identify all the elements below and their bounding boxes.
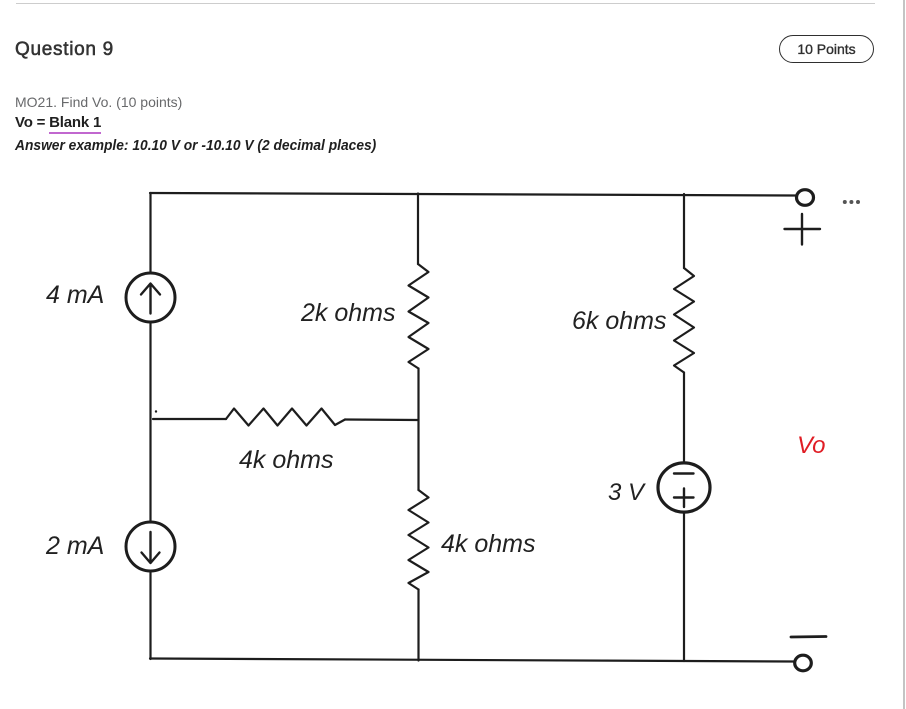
resistor 6k ohms (674, 268, 694, 373)
terminal bottom (open circle) (795, 655, 812, 671)
wire middle rail upper (417, 194, 419, 265)
node dot (155, 410, 157, 412)
svg-text:4k ohms: 4k ohms (441, 530, 535, 558)
wire left rail lower (149, 572, 151, 660)
minus mark (791, 635, 826, 638)
plus mark (785, 214, 821, 245)
svg-text:2 mA: 2 mA (45, 532, 104, 560)
svg-text:4k ohms: 4k ohms (239, 446, 333, 474)
wire right rail upper (683, 194, 685, 268)
wire right rail mid (683, 373, 685, 464)
wire right rail lower (683, 513, 685, 662)
current source I1 4 mA (126, 273, 175, 322)
current source I2 2 mA (126, 522, 175, 571)
wire 4k branch right (345, 418, 418, 421)
voltage source V1 3 V (658, 463, 710, 512)
terminal top (open circle) (797, 190, 814, 206)
prompt line 1 (15, 94, 182, 110)
svg-text:Vo: Vo (797, 432, 825, 459)
svg-text:6k ohms: 6k ohms (572, 307, 666, 335)
prompt line 3 (15, 137, 376, 154)
wire top (150, 193, 795, 196)
wire middle rail lower (417, 590, 419, 661)
heading Question 9 (15, 39, 114, 61)
wire left rail middle (149, 323, 151, 523)
svg-text:3 V: 3 V (608, 479, 646, 506)
points pill (779, 35, 874, 63)
resistor 2k ohms (409, 264, 429, 369)
svg-text:2k ohms: 2k ohms (300, 299, 395, 327)
menu dots (843, 200, 860, 204)
wire middle rail mid (417, 369, 419, 491)
wire left rail upper (149, 193, 151, 273)
wire bottom (150, 659, 794, 662)
resistor 4k ohms vertical (409, 490, 429, 590)
resistor R 4k ohms horizontal (226, 409, 345, 426)
right panel border (903, 0, 905, 709)
prompt line 2 (15, 114, 101, 131)
top divider (16, 3, 875, 4)
wire 4k branch left (153, 418, 226, 420)
svg-text:4 mA: 4 mA (46, 281, 104, 309)
